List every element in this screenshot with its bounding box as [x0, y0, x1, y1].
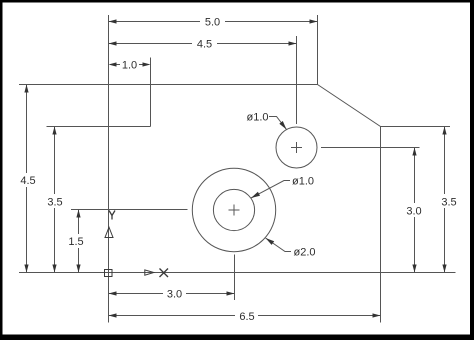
ext line: small circle center (top 4.5 dim)	[296, 36, 298, 124]
small hole center mark	[291, 147, 302, 149]
UCS icon X letter	[160, 269, 169, 278]
ext line: chamfer start (top 5.0 dim)	[317, 15, 319, 85]
leader Ø1.0 (small circle)	[246, 111, 286, 129]
dimension 3.0 (bottom)	[109, 288, 235, 300]
part outline: top edge (merged with left 4.5-dim extension line)	[19, 84, 318, 86]
UCS icon Y arrowhead (open)	[105, 227, 113, 237]
part outline: right edge + bottom dim extension	[380, 127, 382, 323]
small hole circle Ø1.0	[276, 127, 317, 168]
dimension 6.5 (bottom)	[109, 311, 381, 323]
part outline: notch step vertical edge + 1.0-dim extension	[150, 58, 152, 127]
ext line: big circle center horizontal (left 1.5 dim)	[71, 209, 188, 211]
svg-text:4.5: 4.5	[20, 175, 35, 187]
svg-text:3.5: 3.5	[441, 196, 456, 208]
svg-text:1.0: 1.0	[122, 59, 137, 71]
svg-text:ø1.0: ø1.0	[292, 175, 314, 187]
UCS icon Y letter	[109, 211, 115, 220]
dimension 1.0 (top, arrows inside pointing outward)	[109, 59, 151, 71]
dimension 3.5 (right)	[441, 127, 456, 273]
svg-text:6.5: 6.5	[239, 311, 254, 323]
UCS icon X arrowhead (open)	[145, 270, 154, 275]
svg-text:3.5: 3.5	[47, 196, 62, 208]
dimension 3.0 (right)	[406, 148, 421, 273]
part outline: chamfer	[318, 85, 381, 127]
ext line: small circle center horizontal (right 3.0 dim)	[321, 147, 420, 149]
svg-text:3.0: 3.0	[167, 288, 182, 300]
svg-text:ø2.0: ø2.0	[293, 246, 315, 258]
dimension 4.5 (top)	[109, 38, 297, 50]
svg-text:4.5: 4.5	[197, 38, 212, 50]
part outline: notch step horizontal edge (merged with left 3.5-dim extension)	[47, 126, 151, 128]
ext line: chamfer end horizontal (right 3.5 dim)	[381, 126, 451, 128]
part outline: left edge (merged with top and bottom dim extensions)	[108, 15, 110, 323]
svg-text:1.5: 1.5	[68, 236, 83, 248]
svg-text:3.0: 3.0	[406, 205, 421, 217]
leader Ø2.0 (large circle outer)	[266, 238, 316, 258]
svg-text:5.0: 5.0	[205, 16, 220, 28]
leader Ø1.0 (large circle inner)	[251, 175, 314, 198]
UCS icon origin box	[105, 270, 113, 277]
dimension 1.5 (left)	[68, 210, 83, 273]
dimension 3.5 (left)	[47, 127, 62, 273]
large hole center mark	[229, 209, 240, 211]
dimension 4.5 (left)	[20, 85, 35, 273]
large hole outer circle Ø2.0	[192, 168, 275, 251]
svg-text:ø1.0: ø1.0	[246, 111, 268, 123]
ext line: big circle center vertical (bottom 3.0 dim)	[234, 255, 236, 301]
large hole inner circle Ø1.0	[213, 189, 254, 230]
part outline: bottom edge (merged with left and right dim extensions)	[19, 272, 456, 274]
dimension 5.0 (top)	[109, 16, 318, 28]
extension lines	[71, 15, 450, 300]
